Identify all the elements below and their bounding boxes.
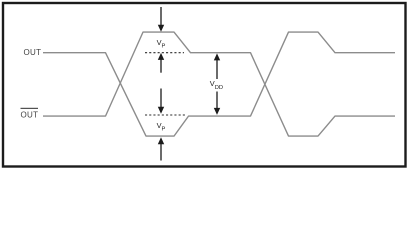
frame border	[3, 3, 406, 167]
svg-text:OUT: OUT	[24, 48, 42, 57]
arrow VDD double-headed	[214, 53, 220, 115]
arrow VP bottom up	[158, 137, 164, 160]
arrow VP bottom down	[158, 89, 164, 114]
arrow VP top down	[158, 7, 164, 32]
node VP reference dashed line bottom	[145, 114, 187, 116]
svg-text:VP: VP	[157, 38, 166, 50]
svg-text:VDD: VDD	[210, 79, 223, 91]
svg-text:VP: VP	[157, 121, 166, 133]
wire OUT-bar waveform	[43, 32, 395, 136]
wire OUT waveform	[43, 32, 395, 136]
arrow VP top up	[158, 53, 164, 73]
label OUT-bar	[21, 108, 39, 120]
svg-text:OUT: OUT	[21, 111, 39, 120]
node VP reference dashed line top	[145, 52, 184, 54]
